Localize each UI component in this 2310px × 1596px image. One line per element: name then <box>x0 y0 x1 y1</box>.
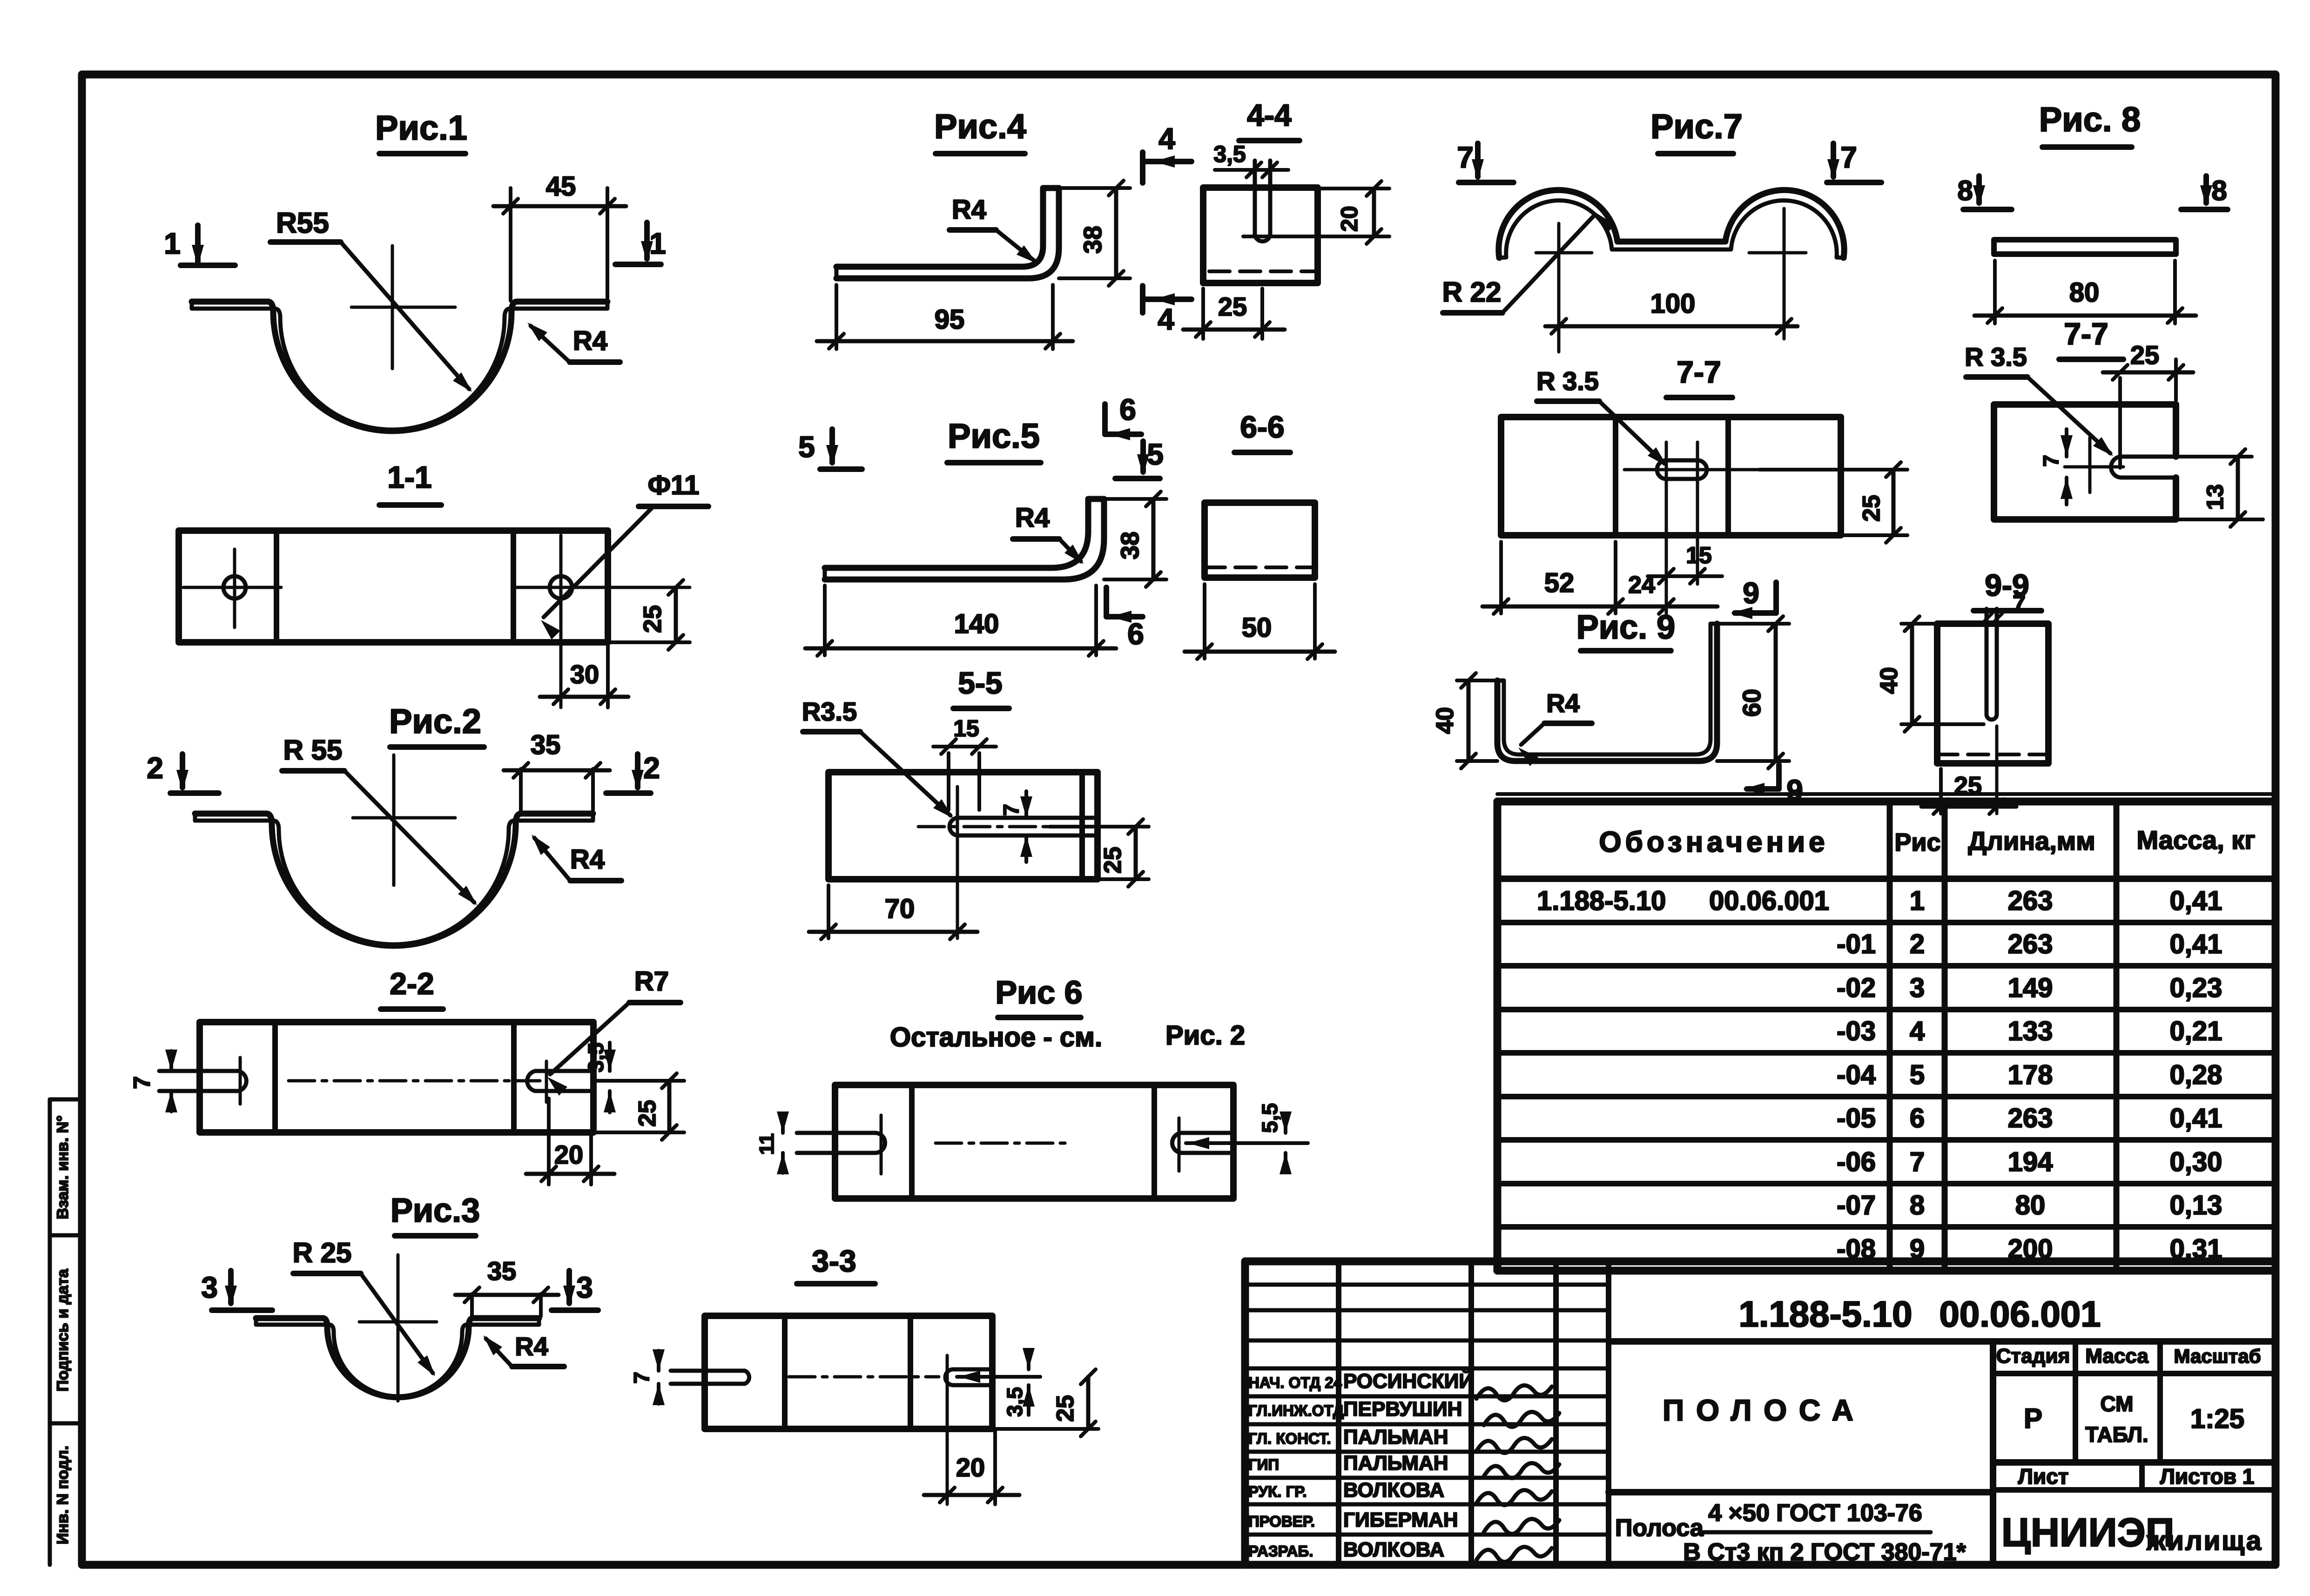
svg-text:2: 2 <box>1910 929 1925 959</box>
svg-text:R4: R4 <box>1546 688 1580 718</box>
svg-text:1.188-5.10: 1.188-5.10 <box>1739 1293 1913 1334</box>
svg-text:R4: R4 <box>570 844 605 875</box>
svg-text:0,13: 0,13 <box>2170 1190 2222 1220</box>
svg-text:7: 7 <box>1840 141 1857 174</box>
svg-text:40: 40 <box>1876 667 1903 694</box>
svg-text:0,23: 0,23 <box>2170 973 2222 1003</box>
svg-text:3: 3 <box>1910 973 1925 1003</box>
svg-text:2-2: 2-2 <box>390 966 434 1001</box>
svg-text:7: 7 <box>2013 591 2026 617</box>
svg-text:РУК. ГР.: РУК. ГР. <box>1248 1483 1307 1500</box>
svg-text:8: 8 <box>2211 175 2227 206</box>
svg-text:25: 25 <box>1218 292 1247 321</box>
svg-text:R55: R55 <box>276 207 329 239</box>
svg-text:2: 2 <box>147 751 163 785</box>
svg-text:8: 8 <box>1957 175 1973 206</box>
svg-text:38: 38 <box>1116 532 1144 559</box>
svg-text:Рис. 8: Рис. 8 <box>2039 100 2141 139</box>
svg-text:Рис.2: Рис.2 <box>389 702 481 741</box>
svg-text:1: 1 <box>649 227 666 260</box>
svg-text:100: 100 <box>1650 289 1696 319</box>
svg-text:38: 38 <box>1079 226 1107 254</box>
svg-text:35: 35 <box>531 730 561 760</box>
svg-text:80: 80 <box>2069 277 2100 308</box>
svg-text:0,30: 0,30 <box>2170 1147 2222 1177</box>
svg-text:7: 7 <box>999 804 1023 816</box>
svg-text:95: 95 <box>935 304 965 335</box>
svg-text:5,5: 5,5 <box>1258 1103 1282 1133</box>
svg-text:В Ст3 кп 2 ГОСТ 380-71*: В Ст3 кп 2 ГОСТ 380-71* <box>1683 1539 1966 1566</box>
svg-text:6-6: 6-6 <box>1240 410 1284 444</box>
svg-text:Рис.1: Рис.1 <box>375 108 467 147</box>
svg-text:Остальное - см.: Остальное - см. <box>890 1022 1102 1052</box>
svg-text:R 55: R 55 <box>283 734 343 766</box>
svg-text:R4: R4 <box>952 195 986 225</box>
svg-text:1: 1 <box>164 227 181 260</box>
svg-text:0,41: 0,41 <box>2170 886 2222 916</box>
svg-text:7: 7 <box>2039 455 2063 467</box>
svg-text:R4: R4 <box>573 326 607 356</box>
svg-text:1-1: 1-1 <box>387 460 431 494</box>
svg-text:5: 5 <box>1147 438 1164 471</box>
svg-text:R3.5: R3.5 <box>802 697 857 726</box>
svg-text:194: 194 <box>2008 1147 2053 1177</box>
svg-text:7-7: 7-7 <box>2064 317 2108 351</box>
svg-text:Р: Р <box>2024 1403 2042 1434</box>
svg-text:ВОЛКОВА: ВОЛКОВА <box>1343 1538 1444 1561</box>
svg-text:Рис. 9: Рис. 9 <box>1576 609 1675 646</box>
svg-text:4: 4 <box>1910 1016 1925 1046</box>
svg-text:5-5: 5-5 <box>958 666 1002 700</box>
svg-text:4 ×50 ГОСТ 103-76: 4 ×50 ГОСТ 103-76 <box>1708 1500 1922 1527</box>
svg-text:3,5: 3,5 <box>1213 141 1246 167</box>
svg-text:ГИБЕРМАН: ГИБЕРМАН <box>1343 1508 1458 1531</box>
svg-text:Масштаб: Масштаб <box>2174 1345 2261 1367</box>
svg-text:Масса: Масса <box>2085 1345 2148 1367</box>
svg-text:-05: -05 <box>1837 1103 1876 1133</box>
svg-text:НАЧ. ОТД 24: НАЧ. ОТД 24 <box>1248 1374 1342 1391</box>
svg-text:ПАЛЬМАН: ПАЛЬМАН <box>1343 1452 1448 1475</box>
svg-text:Рис. 2: Рис. 2 <box>1165 1020 1245 1051</box>
svg-text:13: 13 <box>2202 484 2228 510</box>
svg-text:ТАБЛ.: ТАБЛ. <box>2085 1422 2148 1447</box>
svg-text:R7: R7 <box>634 966 669 997</box>
svg-text:R 3.5: R 3.5 <box>1965 342 2027 371</box>
svg-text:R 3.5: R 3.5 <box>1536 366 1599 396</box>
svg-text:25: 25 <box>1099 847 1126 874</box>
svg-text:7: 7 <box>629 1372 653 1384</box>
svg-text:15: 15 <box>1686 542 1712 568</box>
svg-text:Инв. N подл.: Инв. N подл. <box>54 1446 72 1544</box>
svg-text:133: 133 <box>2008 1016 2053 1046</box>
svg-text:263: 263 <box>2008 1103 2053 1133</box>
svg-text:Рис.4: Рис.4 <box>934 107 1026 146</box>
svg-text:1.188-5.10: 1.188-5.10 <box>1537 886 1666 916</box>
svg-text:ПРОВЕР.: ПРОВЕР. <box>1248 1513 1315 1530</box>
svg-text:0,41: 0,41 <box>2170 929 2222 959</box>
svg-text:Полоса: Полоса <box>1615 1515 1704 1542</box>
svg-text:Лист: Лист <box>2018 1464 2069 1488</box>
svg-text:60: 60 <box>1738 689 1766 717</box>
svg-text:25: 25 <box>634 1100 661 1127</box>
svg-text:7: 7 <box>1457 141 1474 174</box>
svg-text:178: 178 <box>2008 1060 2053 1090</box>
svg-text:Стадия: Стадия <box>1996 1345 2070 1367</box>
svg-text:СМ: СМ <box>2101 1392 2134 1416</box>
svg-text:Подпись и дата: Подпись и дата <box>54 1268 72 1392</box>
svg-text:7-7: 7-7 <box>1677 355 1721 389</box>
svg-text:ГИП: ГИП <box>1248 1456 1279 1473</box>
svg-text:6: 6 <box>1910 1103 1925 1133</box>
svg-text:Рис.5: Рис.5 <box>948 417 1040 455</box>
svg-text:45: 45 <box>546 171 576 202</box>
svg-text:Рис.7: Рис.7 <box>1650 107 1743 146</box>
svg-text:Рис.3: Рис.3 <box>391 1192 480 1229</box>
svg-text:РАЗРАБ.: РАЗРАБ. <box>1248 1542 1313 1560</box>
svg-text:25: 25 <box>1858 495 1885 522</box>
svg-text:5: 5 <box>1910 1060 1925 1090</box>
svg-text:15: 15 <box>953 715 979 741</box>
svg-text:3,5: 3,5 <box>584 1043 608 1072</box>
svg-text:3: 3 <box>576 1271 593 1304</box>
svg-text:ВОЛКОВА: ВОЛКОВА <box>1343 1479 1444 1502</box>
svg-text:Обозначение: Обозначение <box>1599 826 1828 858</box>
svg-text:1:25: 1:25 <box>2190 1404 2244 1434</box>
svg-text:7: 7 <box>1910 1147 1925 1177</box>
svg-text:140: 140 <box>954 609 999 639</box>
svg-text:ГЛ. КОНСТ.: ГЛ. КОНСТ. <box>1248 1430 1331 1447</box>
svg-text:-03: -03 <box>1837 1016 1876 1046</box>
svg-text:-06: -06 <box>1837 1147 1876 1177</box>
svg-text:R4: R4 <box>515 1332 548 1361</box>
svg-text:6: 6 <box>1119 393 1136 426</box>
svg-text:ПОЛОСА: ПОЛОСА <box>1663 1394 1866 1427</box>
svg-text:25: 25 <box>2130 340 2159 370</box>
svg-text:Листов 1: Листов 1 <box>2160 1464 2255 1488</box>
svg-text:20: 20 <box>554 1140 583 1169</box>
svg-text:0,41: 0,41 <box>2170 1103 2222 1133</box>
svg-text:R 22: R 22 <box>1442 276 1502 308</box>
svg-text:3: 3 <box>201 1271 218 1304</box>
svg-text:80: 80 <box>2015 1190 2046 1220</box>
svg-text:263: 263 <box>2008 886 2053 916</box>
svg-text:0,21: 0,21 <box>2170 1016 2222 1046</box>
svg-text:3-3: 3-3 <box>812 1244 856 1278</box>
svg-text:ГЛ.ИНЖ.ОТД: ГЛ.ИНЖ.ОТД <box>1248 1402 1344 1419</box>
svg-text:РОСИНСКИЙ: РОСИНСКИЙ <box>1343 1369 1474 1393</box>
svg-text:Ф11: Ф11 <box>648 470 700 500</box>
svg-text:52: 52 <box>1544 568 1575 598</box>
svg-text:20: 20 <box>1336 206 1362 232</box>
svg-text:9: 9 <box>1743 576 1759 610</box>
svg-text:жилища: жилища <box>2146 1526 2263 1556</box>
svg-text:4: 4 <box>1158 303 1174 336</box>
svg-text:Масса, кг: Масса, кг <box>2136 825 2255 855</box>
svg-text:11: 11 <box>755 1133 778 1155</box>
svg-text:R4: R4 <box>1015 503 1050 533</box>
svg-text:00.06.001: 00.06.001 <box>1939 1293 2101 1334</box>
svg-text:70: 70 <box>885 894 915 924</box>
svg-text:2: 2 <box>643 751 660 785</box>
svg-text:149: 149 <box>2008 973 2053 1003</box>
svg-text:-07: -07 <box>1837 1190 1876 1220</box>
svg-text:7: 7 <box>129 1076 155 1089</box>
svg-text:00.06.001: 00.06.001 <box>1709 886 1829 916</box>
svg-text:R 25: R 25 <box>293 1237 352 1268</box>
svg-text:20: 20 <box>956 1453 985 1482</box>
svg-text:25: 25 <box>639 605 667 633</box>
svg-text:Длина,мм: Длина,мм <box>1968 826 2095 855</box>
svg-text:40: 40 <box>1432 707 1459 734</box>
svg-text:6: 6 <box>1127 617 1144 651</box>
svg-text:4: 4 <box>1158 122 1175 155</box>
svg-text:4-4: 4-4 <box>1247 98 1292 132</box>
svg-text:ПАЛЬМАН: ПАЛЬМАН <box>1343 1426 1448 1448</box>
svg-text:8: 8 <box>1910 1190 1925 1220</box>
svg-text:3,5: 3,5 <box>1003 1387 1027 1417</box>
svg-text:35: 35 <box>487 1256 516 1286</box>
svg-text:Взам. инв. N°: Взам. инв. N° <box>54 1115 72 1219</box>
svg-text:5: 5 <box>798 430 815 464</box>
svg-text:Рис: Рис <box>1894 828 1940 856</box>
svg-text:1: 1 <box>1910 886 1925 916</box>
svg-text:50: 50 <box>1242 613 1272 643</box>
svg-text:ПЕРВУШИН: ПЕРВУШИН <box>1343 1398 1462 1421</box>
svg-text:25: 25 <box>1052 1395 1079 1422</box>
svg-text:263: 263 <box>2008 929 2053 959</box>
svg-text:-01: -01 <box>1837 929 1876 959</box>
svg-text:0,28: 0,28 <box>2170 1060 2222 1090</box>
svg-text:Рис 6: Рис 6 <box>995 974 1082 1010</box>
svg-text:-02: -02 <box>1837 973 1876 1003</box>
svg-text:30: 30 <box>570 660 599 689</box>
svg-text:-04: -04 <box>1837 1060 1876 1090</box>
